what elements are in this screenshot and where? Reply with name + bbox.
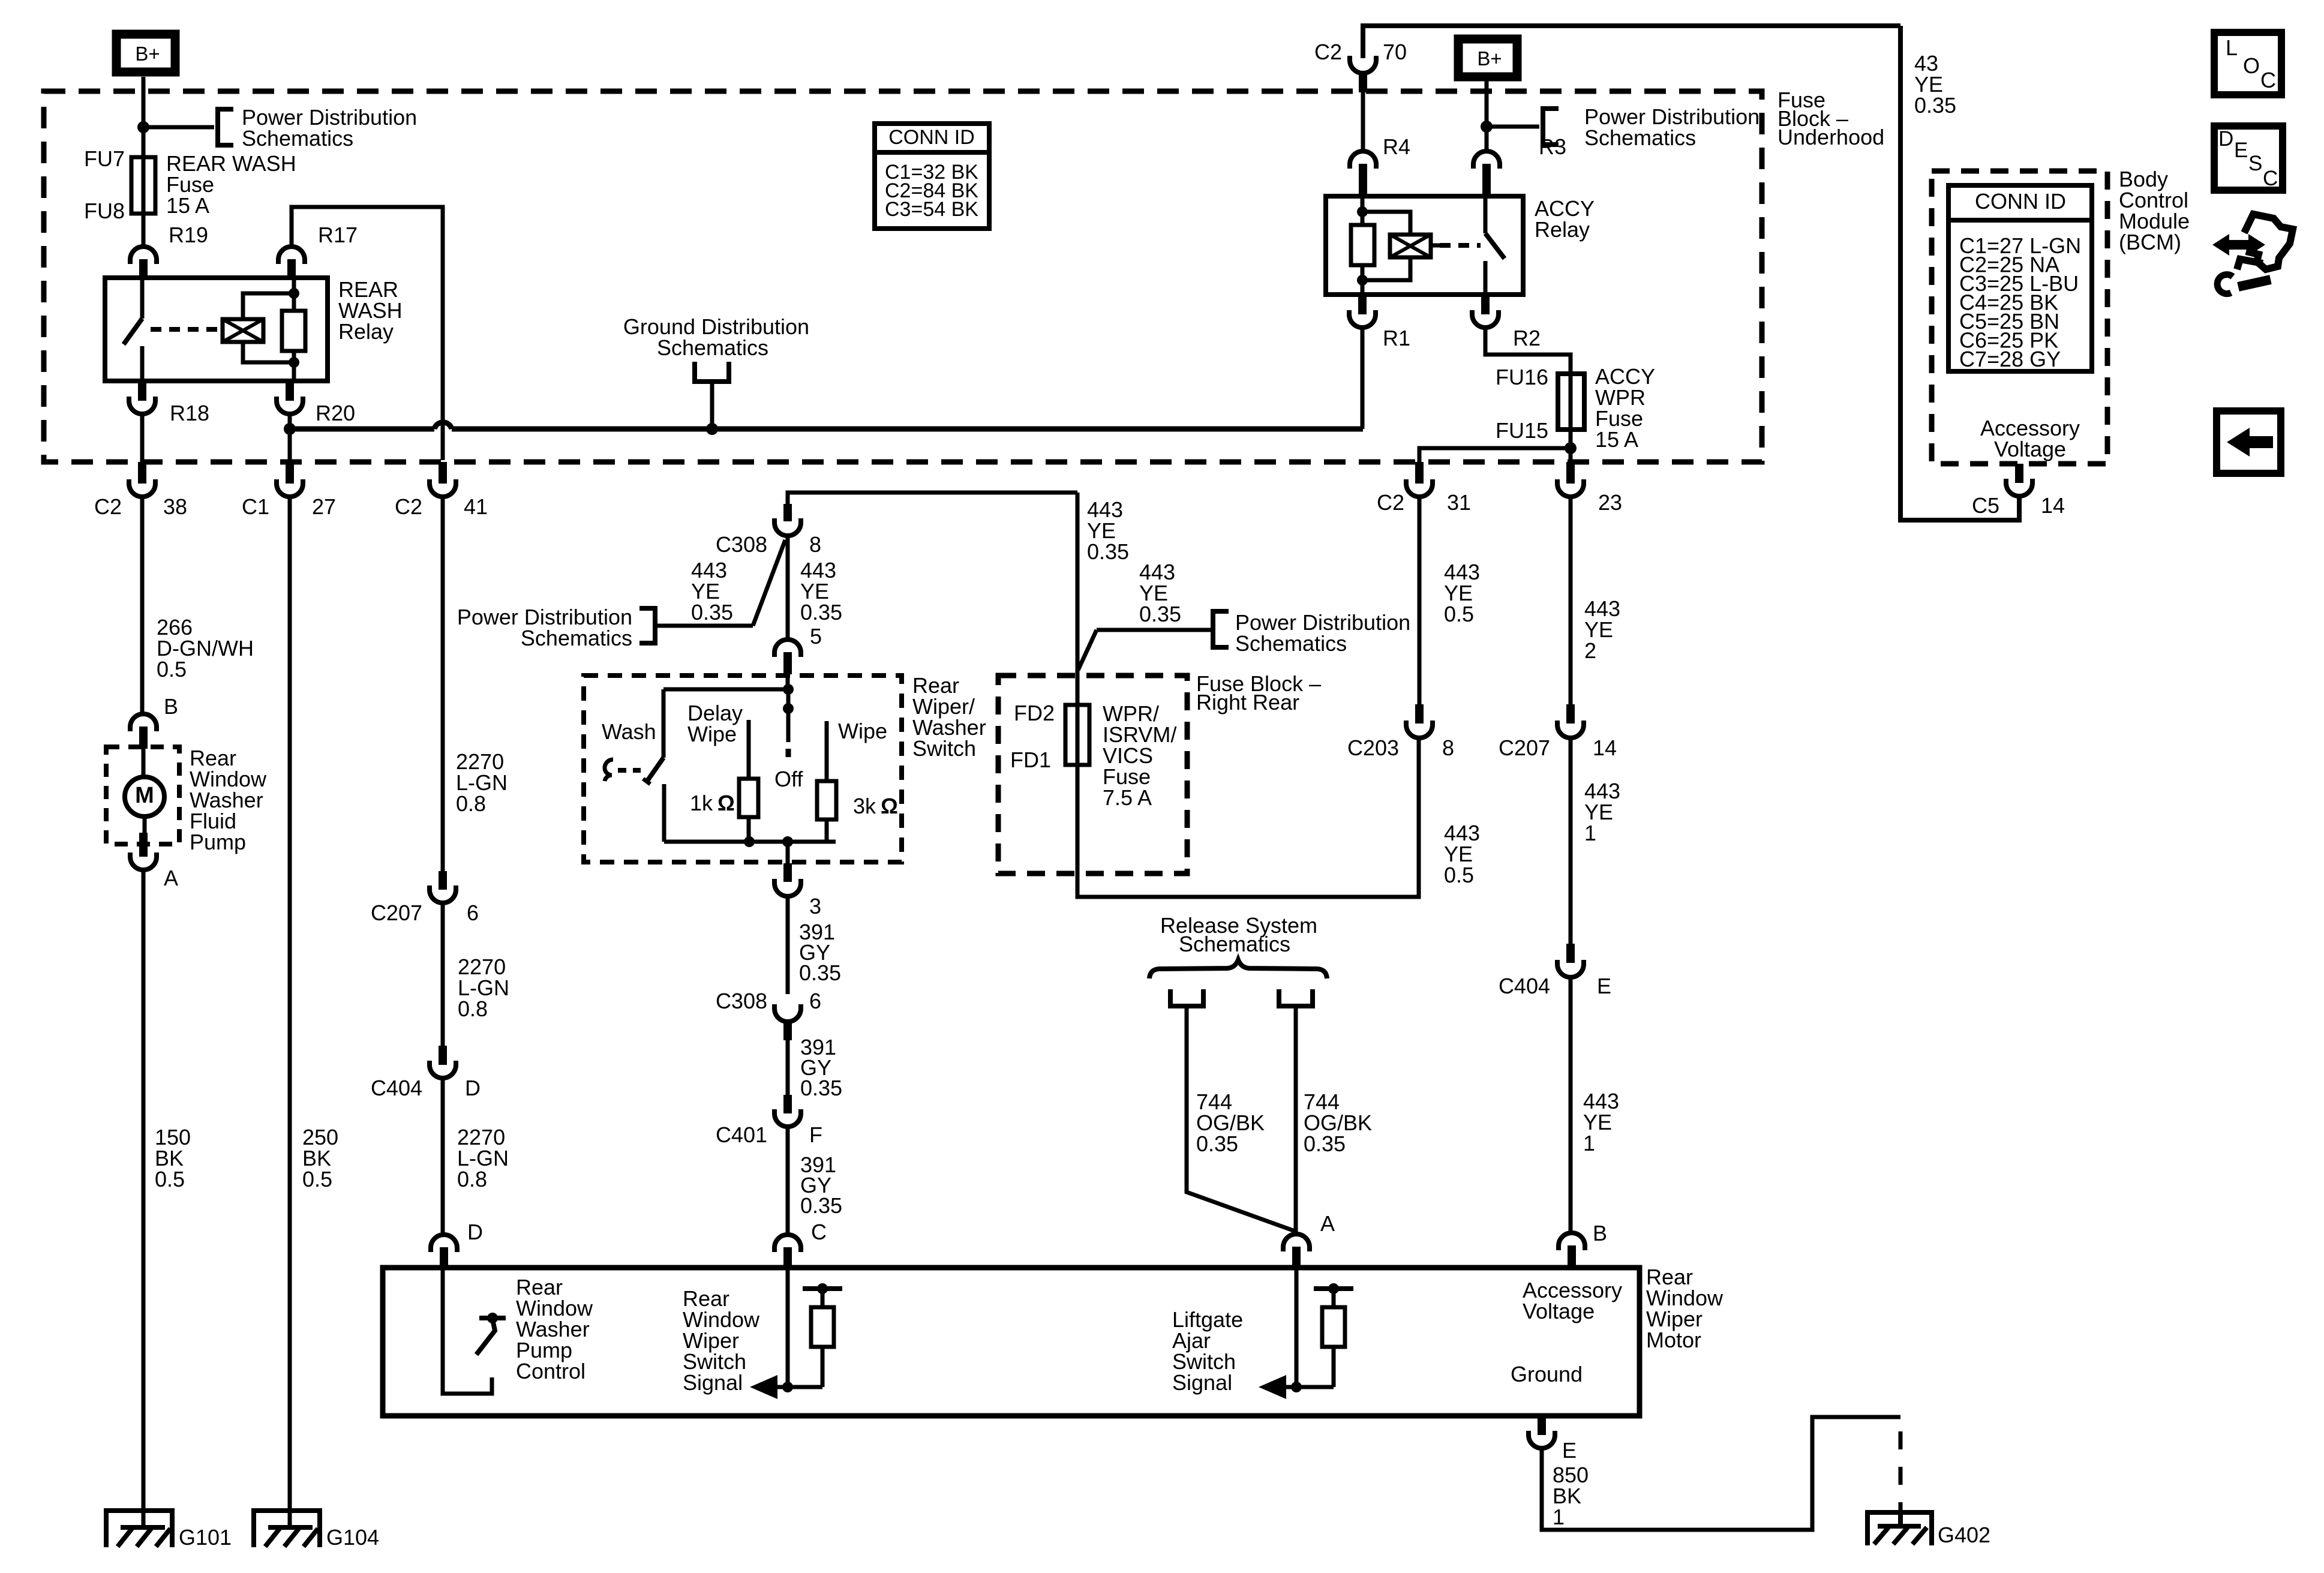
wire C2-31 down to C203-8 [1418,497,1422,704]
BCM dashed box [1932,171,2107,464]
ground G402 [1898,1512,1903,1526]
ACCY switch blade [1485,233,1505,259]
vehicle icon outline [2244,214,2293,269]
off contact dash [786,749,791,757]
washer pump control switch [479,1316,506,1320]
connector R20 cup [277,397,303,414]
svg-text:Schematics: Schematics [1584,125,1696,150]
svg-text:8: 8 [809,532,821,557]
wire hop over C2-41 wire [434,422,452,429]
svg-text:S: S [2248,152,2262,175]
junction dot R3 branch [1481,121,1493,133]
ACCY switch top line [1484,196,1488,233]
connector C1-27 cup [277,479,303,497]
svg-text:C: C [811,1220,827,1244]
svg-text:B: B [1593,1221,1607,1245]
wire B+ down to fuse FU7 [142,77,146,157]
B+ terminal (right) [1458,39,1517,77]
connector motor D dome [431,1235,457,1252]
REAR WASH relay box [105,278,328,381]
pin R19 into relay [139,259,148,280]
wire release left to A [1187,1006,1296,1232]
connector motor B dome [1559,1233,1585,1250]
fuse FU7/FU8 REAR WASH Fuse 15A [131,157,155,214]
rear window wiper motor box [383,1268,1640,1416]
relay switch blade [124,319,142,344]
svg-text:C: C [2263,167,2278,190]
fuse FD2/FD1 WPR/ISRVM/VICS [1065,705,1089,765]
svg-text:Wash: Wash [602,719,656,744]
pin R4 into relay [1359,164,1367,196]
svg-text:E: E [1562,1438,1577,1463]
wiper signal resistor branch [788,1385,822,1389]
svg-text:C2: C2 [94,494,122,519]
svg-text:D: D [2218,127,2233,151]
ACCY coil junction dot top [1357,206,1368,217]
svg-text:Pump: Pump [190,830,246,854]
svg-text:O: O [2243,53,2260,78]
pin motor C [783,1247,792,1268]
connector R19 dome [130,247,157,264]
svg-text:G101: G101 [179,1525,232,1550]
svg-text:L: L [2226,35,2238,60]
svg-text:B+: B+ [135,43,160,65]
washer pump dashed box [106,747,179,844]
svg-text:7.5 A: 7.5 A [1103,785,1152,810]
svg-text:0.35: 0.35 [799,960,841,985]
connector R2 cup [1472,310,1499,328]
BCM conn id table [1948,185,2092,371]
wire to power distribution bracket (right) [1487,125,1539,129]
relay coil top wire [243,293,294,319]
rear wiper/washer switch dashed box [584,676,902,862]
wire pump A to G101 [142,870,146,1527]
bracket power distribution schematics (right) [1543,109,1559,145]
wire into pump motor [142,749,146,778]
pin C203-8 [1415,704,1424,724]
delay wipe contact post [747,720,751,779]
svg-text:D: D [465,1076,481,1100]
pin C308-8 [783,504,792,521]
junction dot coil bottom [289,357,299,368]
svg-text:FD1: FD1 [1010,748,1051,772]
washer pump control wire [443,1268,492,1394]
pin C1-27 [286,462,294,484]
connector C404-D cup [430,1061,456,1078]
svg-text:6: 6 [467,900,479,925]
pin C2-31 [1415,462,1424,484]
wire R20 down to bus [288,414,292,462]
connector C2-41 cup [430,479,456,497]
wire release right to A [1294,1006,1298,1234]
svg-text:15 A: 15 A [1595,427,1638,452]
svg-text:Voltage: Voltage [1523,1299,1595,1323]
svg-text:0.35: 0.35 [1196,1131,1238,1156]
svg-text:0.5: 0.5 [1444,863,1474,887]
switch common post [662,689,666,758]
svg-text:Right Rear: Right Rear [1196,690,1299,715]
svg-text:R4: R4 [1383,134,1410,159]
svg-text:6: 6 [809,989,821,1013]
svg-text:31: 31 [1447,490,1471,515]
liftgate signal arrow [1266,1385,1296,1389]
svg-text:R3: R3 [1539,134,1566,159]
wire C207-14 down to C404-E [1569,738,1573,944]
wire fuse to R19 [142,214,146,248]
pin C207-6 [439,871,447,890]
svg-text:E: E [2234,139,2248,162]
wash dashed actuator [618,768,641,773]
svg-text:R1: R1 [1383,326,1410,350]
wire switch top horizontal [788,493,1077,504]
wire 23 down to C207-14 [1569,497,1573,704]
connector 23 cup [1557,479,1584,497]
wire bracket leader to 443 wire [1097,628,1213,632]
vehicle icon double arrow [2212,234,2265,256]
svg-text:2: 2 [1584,638,1596,663]
vehicle icon wrench [2238,280,2271,287]
bracket power distribution schematics (left) [218,109,233,145]
svg-text:Relay: Relay [338,319,394,344]
relay actuator dashed [151,327,221,332]
svg-text:C404: C404 [1499,974,1550,998]
svg-text:C5: C5 [1972,493,1999,518]
svg-text:Wipe: Wipe [687,722,737,746]
wire E to G402 solid part [1542,1417,1900,1530]
svg-text:A: A [164,866,178,890]
connector motor A dome [1283,1234,1310,1251]
pin R1 out of relay [1358,295,1367,314]
svg-text:23: 23 [1598,490,1622,515]
ACCY switch lower line [1484,261,1488,295]
svg-text:M: M [135,783,154,808]
connector C207-6 cup [430,885,456,903]
wiper signal arrow [757,1385,788,1389]
pin C5-14 [2015,464,2023,483]
connector C2-70 cup [1350,56,1376,73]
pin motor A [1292,1247,1301,1268]
svg-text:0.8: 0.8 [457,1167,487,1191]
pin C401-F [783,1095,792,1113]
svg-text:C308: C308 [716,989,767,1013]
svg-text:Ground: Ground [1511,1362,1583,1386]
connector 3 cup [774,879,801,896]
connector C308-8 cup [774,518,801,536]
svg-text:Control: Control [516,1359,585,1383]
wire C404-D down [441,1078,445,1236]
svg-text:27: 27 [312,494,336,519]
svg-text:5: 5 [810,624,822,649]
junction dot coil top [289,288,299,299]
svg-text:15 A: 15 A [166,193,209,218]
svg-text:1: 1 [1553,1505,1565,1529]
svg-text:Ω: Ω [717,791,735,815]
switch feed junction dot 2 [783,703,794,714]
pin pump A [139,833,148,857]
svg-text:C: C [2260,68,2276,92]
svg-text:0.35: 0.35 [800,600,842,625]
resistor 1k [739,779,758,817]
wire FU15 down [1569,430,1573,462]
pin C2-41 [439,462,447,484]
wire C2-70 to R4 [1361,92,1365,150]
pin motor E [1538,1416,1546,1435]
svg-text:Schematics: Schematics [1235,631,1347,656]
svg-text:0.5: 0.5 [155,1167,185,1191]
junction dot below B+ [137,121,149,133]
svg-text:14: 14 [1593,736,1617,760]
wire C401-F down to C [786,1127,790,1236]
connector C207-14 cup [1557,721,1584,738]
svg-text:0.8: 0.8 [458,996,488,1021]
liftgate ajar signal input wire [1295,1268,1299,1387]
svg-text:C7=28 GY: C7=28 GY [1959,347,2061,371]
svg-text:B: B [164,694,178,719]
wire R18 down to C2-38 [140,414,145,462]
wire C1-27 to G104 [288,497,292,1527]
svg-text:FU7: FU7 [84,146,125,171]
B+ terminal (left) [116,34,175,72]
pin pump B [139,727,148,749]
svg-text:0.8: 0.8 [456,791,486,816]
relay switch lower line [140,346,145,381]
svg-text:C2: C2 [1314,40,1342,64]
wire pin5 into switch [786,676,790,689]
junction dot rail 1k [744,836,755,847]
svg-text:3k: 3k [853,794,876,818]
svg-text:(BCM): (BCM) [2119,230,2181,254]
ACCY coil junction dot bottom [1357,275,1368,286]
pin motor B [1568,1245,1576,1268]
junction dot liftgate signal [1291,1382,1302,1392]
connector C2-38 cup [129,479,155,497]
svg-text:0.5: 0.5 [1444,602,1474,626]
pin R3 into relay [1482,164,1491,196]
wire top horizontal to BCM side [1363,26,1900,58]
svg-text:0.35: 0.35 [800,1193,842,1218]
svg-text:Schematics: Schematics [521,626,632,650]
svg-text:A: A [1320,1211,1335,1236]
svg-text:41: 41 [464,494,488,519]
svg-text:C3=54 BK: C3=54 BK [885,198,978,221]
svg-text:R2: R2 [1513,326,1541,350]
bracket power distribution (right-mid) [1213,611,1229,647]
connector C308-6 cup [774,1004,801,1022]
LOC box [2214,32,2281,95]
connector pump A cup [130,852,157,870]
switch feed rail [663,688,788,692]
bus wire R20 to ACCY R1 [290,427,434,432]
svg-text:E: E [1597,974,1611,998]
connector C2-31 cup [1406,479,1433,497]
svg-text:C2: C2 [395,494,422,519]
svg-text:Schematics: Schematics [657,335,768,360]
svg-text:1: 1 [1584,821,1596,845]
off contact line [786,689,791,742]
ACCY coil X [1390,235,1431,257]
svg-text:C207: C207 [371,900,422,925]
wire C308-8 to pin5 [786,536,790,638]
connector R18 cup [129,397,155,414]
svg-text:3: 3 [809,894,821,918]
ACCY coil top wire [1362,212,1410,235]
svg-text:R19: R19 [169,223,208,247]
svg-text:F: F [809,1122,822,1147]
relay coil X [223,319,263,342]
pin C308-6 below [783,1022,792,1040]
wire C2-38 to pump B [140,497,145,714]
svg-text:C2: C2 [1377,490,1404,515]
svg-text:Motor: Motor [1646,1328,1701,1352]
ACCY coil box [1390,235,1431,257]
relay coil bottom wire [243,342,294,362]
svg-text:Signal: Signal [1172,1370,1232,1395]
resistor 3k lower lead [825,819,829,842]
DESC box [2214,126,2283,190]
bracket release right [1279,989,1313,1006]
wire C207-6 down [441,903,445,1046]
pin switch 5 [783,652,792,674]
svg-text:FU16: FU16 [1496,365,1548,389]
pin motor D [440,1247,448,1268]
connector C401-F cup [774,1109,801,1127]
wire 3 to C308-6 [786,896,790,994]
pin 23 [1566,462,1575,484]
ACCY resistor [1351,225,1374,265]
ACCY coil right stub [1431,244,1440,248]
svg-text:CONN ID: CONN ID [1975,189,2066,214]
ground G101 [106,1511,172,1547]
svg-text:Relay: Relay [1535,217,1590,242]
svg-text:C203: C203 [1347,736,1399,760]
wire R1 down to bus [1361,328,1365,429]
svg-text:C404: C404 [371,1076,422,1100]
pin R2 out of relay [1481,295,1490,314]
fuse block underhood dashed outline [44,91,1762,462]
ground G104 [254,1511,320,1547]
connector C404-E cup [1557,960,1584,977]
wire B+ right down to R3 [1485,77,1489,150]
svg-text:0.5: 0.5 [302,1167,332,1191]
connector C203-8 cup [1406,721,1433,738]
svg-text:Switch: Switch [912,736,976,761]
connector switch pin5 dome [774,640,801,657]
wire bracket to splice [655,624,753,628]
pin C404-E [1566,944,1575,963]
svg-text:R20: R20 [316,401,355,425]
wire FD1 down and over to C203-8 [1077,739,1419,897]
connector R4 dome [1350,151,1376,169]
wash hook contact [605,760,613,781]
wire rail down to pin3 [786,842,790,863]
switch blade [647,758,663,782]
pump motor circle [125,777,164,816]
fuse block right rear dashed box [998,676,1187,873]
junction dot ground stem [706,423,718,435]
wire to power distribution bracket [143,125,214,130]
svg-text:B+: B+ [1477,47,1502,70]
wire down right side to BCM [1900,26,2019,520]
fuse FU16/FU15 ACCY WPR [1558,374,1584,430]
svg-text:0.5: 0.5 [157,657,187,682]
wire R2 to FU16 [1485,328,1571,374]
svg-text:0.35: 0.35 [1087,539,1129,564]
svg-text:C1: C1 [242,494,269,519]
svg-text:8: 8 [1442,736,1454,760]
pin R20 out of relay [286,381,294,401]
svg-text:Underhood: Underhood [1777,125,1884,149]
junction dot rail out [782,836,793,847]
svg-text:C308: C308 [716,532,767,557]
bracket release left [1170,989,1203,1006]
svg-text:R17: R17 [318,223,358,247]
connector R3 dome [1473,151,1500,169]
pin R17 into relay [287,259,296,278]
switch left leg [662,784,666,842]
resistor 3k [817,781,836,819]
svg-text:FU15: FU15 [1496,418,1548,443]
svg-text:C401: C401 [716,1122,767,1147]
svg-text:0.35: 0.35 [800,1076,842,1100]
pin switch 3 [783,863,792,882]
svg-text:R18: R18 [170,401,209,425]
svg-text:D: D [467,1220,483,1244]
junction dot FU15 [1565,442,1577,454]
connector R1 cup [1349,310,1376,328]
svg-text:G104: G104 [326,1525,379,1550]
svg-text:C207: C207 [1499,736,1550,760]
bracket ground distribution [695,362,729,382]
connector C5-14 cup [2006,479,2032,496]
ACCY actuator dashed [1440,243,1481,248]
connector motor E cup [1529,1431,1555,1448]
relay coil box [223,319,263,342]
wire C308-6 to C401-F [786,1040,790,1095]
svg-text:0.35: 0.35 [691,600,733,625]
wire C2-41 down [441,497,445,871]
connector motor C dome [774,1235,801,1252]
switch feed junction dot 1 [783,684,794,695]
wire FU15 branch left [1419,448,1571,462]
pin C2-38 [138,462,146,484]
wire C404-E down to motor B [1569,977,1573,1233]
svg-text:70: 70 [1383,40,1407,64]
bracket power distribution (middle) [639,608,655,643]
wire R17 up and over to C2-41 [292,207,443,460]
svg-text:FU8: FU8 [84,199,125,223]
relay resistor leads [292,278,296,311]
connector R17 dome [278,247,305,264]
ACCY relay box [1326,196,1523,295]
svg-text:38: 38 [163,494,187,519]
vehicle icon lower angle [2237,259,2263,269]
svg-text:0.35: 0.35 [1914,93,1956,118]
svg-text:Schematics: Schematics [242,126,353,151]
pin R18 out of relay [138,381,146,401]
wipe contact post [825,721,829,781]
relay switch fixed line [140,278,145,319]
svg-text:Schematics: Schematics [1179,932,1290,956]
ACCY coil bottom wire [1362,257,1410,280]
junction dot R20 bus [284,423,296,435]
switch bottom rail [664,840,836,844]
svg-text:Signal: Signal [683,1370,743,1395]
conn id table underhood [875,124,989,229]
liftgate signal resistor branch [1296,1385,1334,1389]
svg-text:14: 14 [2041,493,2065,518]
relay resistor [282,311,305,351]
back arrow box [2217,411,2281,473]
